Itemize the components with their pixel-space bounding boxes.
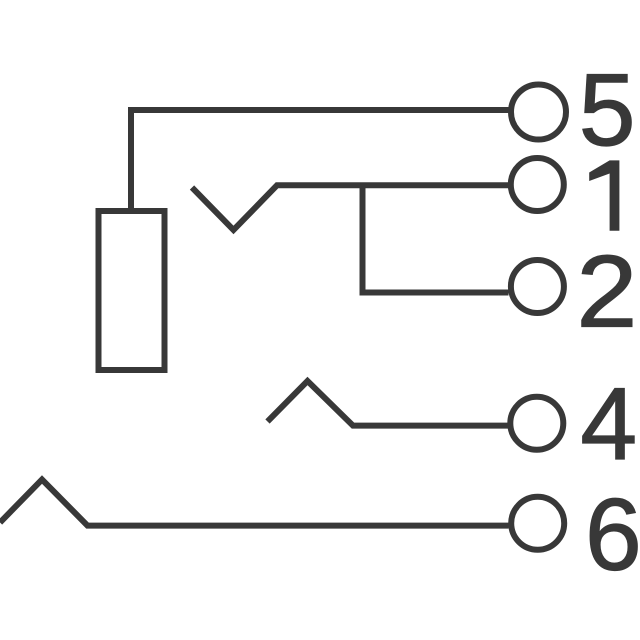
terminal circle 1 <box>511 158 564 211</box>
svg-text:5: 5 <box>579 53 636 167</box>
terminal circle 6 <box>511 497 564 550</box>
terminal circle 4 <box>510 397 563 450</box>
wire from plug body to terminal 5 <box>131 110 509 208</box>
switch lever (pin 6) and wire <box>0 480 509 526</box>
jack plug body rectangle <box>99 211 165 370</box>
switch lever (pin 4) and wire <box>268 381 509 426</box>
wire junction from node 1 down to terminal 2 <box>363 185 509 292</box>
svg-text:4: 4 <box>580 367 637 481</box>
terminal circle 5 <box>511 85 566 140</box>
svg-text:6: 6 <box>585 478 640 592</box>
tip contact lever (pin 1) and wire <box>192 185 509 230</box>
terminal circle 2 <box>511 260 564 313</box>
pin label 1 (custom glyph without foot serif) <box>589 160 619 230</box>
svg-text:2: 2 <box>576 235 637 349</box>
